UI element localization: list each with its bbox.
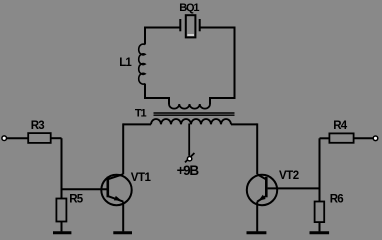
svg-text:VT1: VT1 — [131, 172, 152, 184]
svg-text:BQ1: BQ1 — [179, 2, 199, 14]
svg-text:R5: R5 — [69, 194, 84, 206]
svg-text:R6: R6 — [330, 194, 344, 206]
svg-text:R3: R3 — [31, 120, 45, 132]
svg-text:VT2: VT2 — [279, 170, 299, 182]
svg-text:+9B: +9B — [177, 163, 200, 178]
svg-text:T1: T1 — [135, 108, 147, 120]
svg-text:R4: R4 — [333, 120, 348, 132]
svg-text:L1: L1 — [119, 57, 132, 69]
